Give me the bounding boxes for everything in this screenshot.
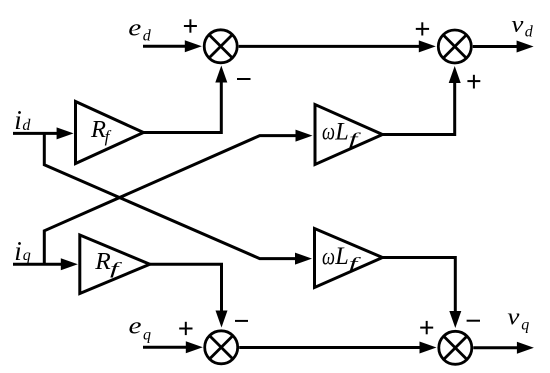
- wire i_q input to gain block R_f bottom: [13, 258, 78, 270]
- value label wL_f top: [322, 119, 361, 149]
- gain block wL_f bottom (triangle): [315, 229, 383, 288]
- gain block R_f bottom (triangle): [80, 235, 150, 294]
- svg-text:e: e: [129, 313, 142, 339]
- output label v_q: [507, 305, 529, 334]
- svg-text:v: v: [511, 12, 523, 38]
- plus sign at S3 left input: [179, 322, 192, 335]
- value label R_f top: [90, 117, 112, 146]
- wire i_d branch to gain block wL_f bottom (cross coupling): [44, 133, 312, 264]
- svg-text:d: d: [525, 24, 534, 41]
- input label i_q: [14, 236, 31, 266]
- plus sign at S2 left input: [416, 22, 429, 35]
- wire i_d input to gain block R_f top: [13, 127, 74, 139]
- svg-text:i: i: [14, 236, 22, 266]
- minus sign at S3 top input: [235, 320, 248, 322]
- svg-text:L: L: [334, 119, 348, 146]
- wire summing junction S1 to summing junction S2: [239, 40, 436, 52]
- svg-text:e: e: [128, 15, 141, 41]
- summing junction S4 (circle with X): [439, 331, 472, 364]
- wire i_q branch to gain block wL_f top (cross coupling): [44, 130, 312, 265]
- svg-text:d: d: [143, 27, 152, 44]
- summing junction S2 (circle with X): [438, 30, 471, 63]
- svg-text:q: q: [23, 247, 31, 264]
- svg-text:L: L: [334, 243, 348, 270]
- wire wL_f top output to summing junction S2 bottom input: [383, 66, 461, 135]
- input label e_q: [129, 313, 152, 343]
- minus sign at S4 top input: [467, 320, 480, 322]
- svg-text:q: q: [521, 316, 529, 333]
- wire e_d input to summing junction S1: [143, 40, 202, 52]
- wire summing junction S4 to output v_q: [473, 342, 534, 354]
- svg-text:R: R: [94, 249, 111, 275]
- input label e_d: [128, 15, 151, 44]
- svg-text:q: q: [143, 326, 151, 343]
- wire R_f top output to summing junction S1 bottom input: [144, 66, 227, 133]
- wire summing junction S3 to summing junction S4: [239, 342, 436, 354]
- minus sign at S1 bottom input: [237, 78, 251, 80]
- plus sign at S2 bottom input: [467, 75, 480, 89]
- svg-text:ω: ω: [322, 120, 335, 146]
- plus sign at S1 left input: [184, 19, 197, 32]
- input label i_d: [14, 105, 31, 135]
- wire e_q input to summing junction S3: [143, 341, 203, 353]
- wire R_f bottom output to summing junction S3 top input: [150, 264, 228, 327]
- summing junction S1 (circle with X): [204, 30, 237, 63]
- svg-text:i: i: [14, 105, 22, 135]
- svg-text:d: d: [22, 117, 31, 134]
- value label R_f bottom: [94, 249, 122, 278]
- gain block R_f top (triangle): [76, 102, 144, 164]
- value label wL_f bottom: [322, 243, 361, 273]
- plus sign at S4 left input: [420, 321, 433, 334]
- summing junction S3 (circle with X): [205, 331, 238, 364]
- output label v_d: [511, 12, 533, 41]
- wire wL_f bottom output to summing junction S4 top input: [383, 258, 462, 329]
- gain block wL_f top (triangle): [315, 105, 383, 165]
- svg-text:v: v: [507, 305, 519, 331]
- svg-text:ω: ω: [322, 244, 335, 270]
- wire summing junction S2 to output v_d: [473, 41, 534, 53]
